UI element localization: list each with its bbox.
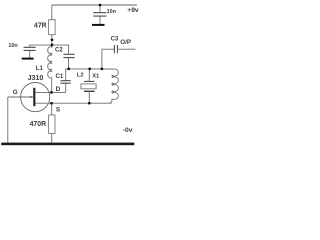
wire bypass 10n right bbox=[99, 5, 101, 13]
source lead bbox=[35, 102, 111, 104]
wire C1 bottom to drain node bbox=[65, 83, 67, 92]
gate down wire bbox=[7, 97, 9, 143]
capacitor 10n left bbox=[24, 47, 36, 50]
capacitor C2 bbox=[63, 54, 74, 57]
drain lead bbox=[35, 91, 65, 93]
svg-text:C3: C3 bbox=[111, 36, 119, 43]
svg-text:S: S bbox=[56, 106, 61, 113]
crystal X1 top stub bbox=[88, 69, 90, 82]
junction crystal top net bbox=[88, 68, 91, 71]
transistor Q1 J310 circle bbox=[21, 83, 50, 112]
node +9v top rail bbox=[52, 4, 137, 6]
junction C3 tap net bbox=[101, 68, 104, 71]
svg-text:C1: C1 bbox=[56, 73, 64, 80]
svg-text:X1: X1 bbox=[92, 73, 100, 79]
svg-text:L2: L2 bbox=[77, 73, 84, 79]
crystal X1 bottom stub bbox=[88, 91, 90, 103]
wire 470R bottom bbox=[51, 134, 53, 143]
svg-text:-0v: -0v bbox=[123, 127, 133, 134]
wire branch to left 10n bbox=[30, 45, 52, 47]
junction node below 47R lower bbox=[51, 44, 54, 47]
transistor channel bar bbox=[33, 88, 35, 106]
svg-text:G: G bbox=[13, 89, 18, 96]
wire 10n right to ground bbox=[99, 16, 101, 24]
capacitor C3 plates bbox=[114, 45, 117, 53]
svg-text:L1: L1 bbox=[36, 65, 44, 72]
crystal X1 top plate bbox=[84, 80, 95, 82]
ground right 10n bbox=[92, 24, 105, 26]
wire branch to C2 bbox=[52, 45, 69, 54]
gate arrow bbox=[30, 96, 33, 98]
capacitor C1 plates bbox=[60, 81, 70, 84]
resistor 470R bbox=[49, 115, 55, 134]
crystal X1 bottom plate bbox=[84, 90, 95, 92]
junction C2 bottom / C1 / net bbox=[67, 68, 70, 71]
resistor 47R bbox=[49, 20, 56, 35]
capacitor 10n right plates bbox=[93, 13, 106, 16]
junction on +9v rail at bypass cap bbox=[99, 4, 102, 7]
svg-text:+9v: +9v bbox=[127, 7, 139, 14]
svg-text:C2: C2 bbox=[55, 47, 63, 54]
wire O/P bbox=[117, 48, 135, 50]
bottom rail -0v bbox=[1, 143, 134, 146]
svg-text:J310: J310 bbox=[28, 74, 44, 82]
junction node below 47R upper bbox=[51, 38, 54, 41]
svg-text:10n: 10n bbox=[8, 43, 17, 49]
wire C1 top to net bbox=[66, 69, 69, 81]
junction drain node D bbox=[50, 91, 53, 94]
wire C3 tap bbox=[102, 49, 114, 69]
junction crystal bottom on source line bbox=[88, 102, 91, 105]
svg-text:470R: 470R bbox=[30, 121, 46, 128]
junction source node at 470R bbox=[50, 102, 53, 105]
wire L1 to drain bbox=[51, 78, 53, 93]
svg-text:10n: 10n bbox=[107, 9, 116, 15]
ground left 10n bbox=[22, 58, 34, 60]
wire 47R top bbox=[51, 5, 53, 20]
wire 470R top bbox=[51, 103, 53, 115]
svg-text:47R: 47R bbox=[34, 23, 47, 30]
svg-text:O/P: O/P bbox=[120, 39, 131, 46]
wire 47R bottom bbox=[51, 35, 53, 48]
crystal X1 box bbox=[81, 84, 96, 89]
svg-text:D: D bbox=[56, 86, 61, 93]
gate wire bbox=[8, 96, 33, 98]
inductor L2 bbox=[102, 69, 118, 103]
wire C2 bottom bbox=[68, 58, 70, 69]
inductor L1 bbox=[48, 47, 52, 78]
node wire y69 bbox=[69, 68, 111, 70]
wire 10n left to ground bbox=[29, 50, 31, 57]
